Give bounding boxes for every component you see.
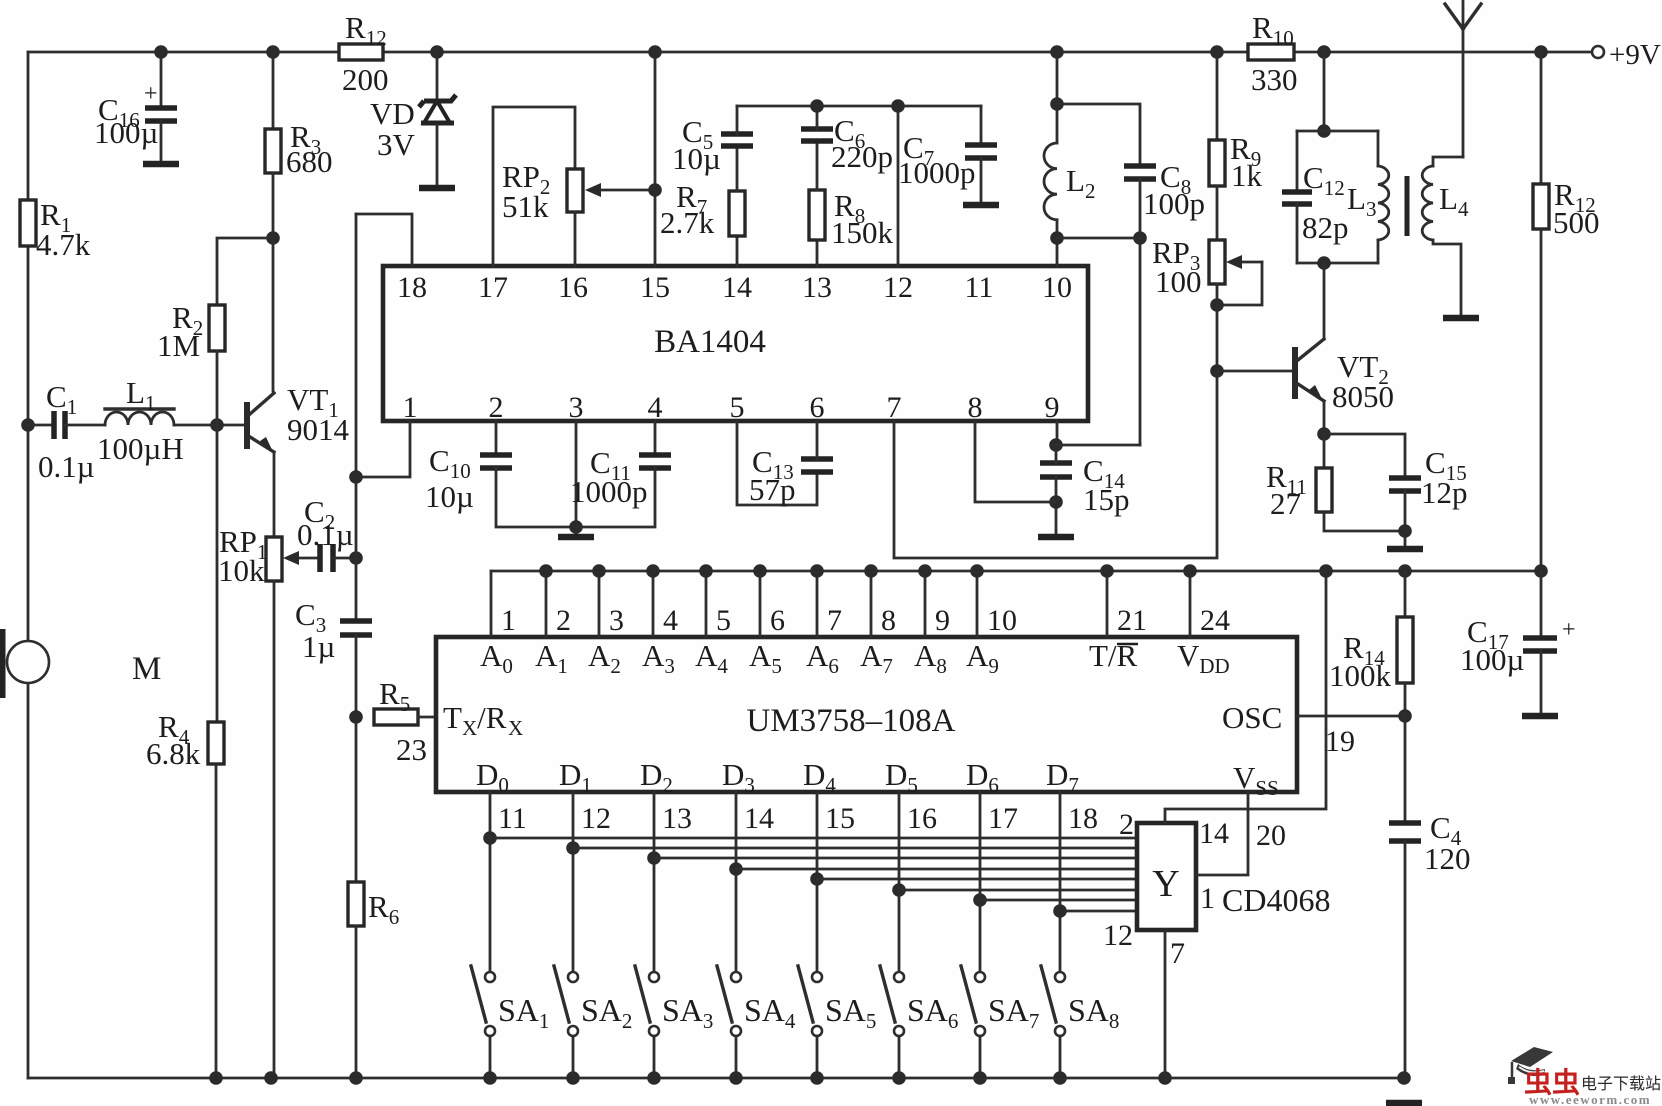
svg-text:16: 16 bbox=[907, 802, 937, 835]
junction rail-R3 bbox=[266, 45, 280, 59]
junction rail-pin15 bbox=[648, 45, 662, 59]
wire C15 bottom bbox=[1404, 491, 1407, 545]
potentiometer RP1 10k bbox=[266, 537, 282, 581]
switch SA1 bbox=[471, 966, 495, 1036]
zener diode VD 3V bbox=[419, 95, 456, 123]
junction left-C1 bbox=[21, 418, 35, 432]
ground under C17 bbox=[1522, 713, 1558, 720]
wire C5/C6/C7 top bbox=[737, 105, 981, 108]
wire D7 column bbox=[1059, 792, 1062, 972]
wire C14 top to C8 column bbox=[1056, 444, 1140, 447]
junction bus-pin10 bbox=[970, 564, 984, 578]
junction pin12-topwire bbox=[891, 99, 905, 113]
svg-text:10µ: 10µ bbox=[425, 479, 474, 514]
junction rail-R12b bbox=[1534, 45, 1548, 59]
junction SA1-bus bbox=[483, 1071, 497, 1085]
wire D4 column bbox=[816, 792, 819, 972]
RP1 wiper arrow bbox=[283, 551, 318, 565]
junction bus-pin3 bbox=[592, 564, 606, 578]
resistor R11 27 bbox=[1316, 468, 1332, 512]
svg-text:13: 13 bbox=[802, 271, 832, 304]
wire pin7 to VT2 base bbox=[894, 377, 1217, 558]
wire VT2 collector bbox=[1323, 263, 1326, 339]
wire UM3758 pin 5 stub bbox=[705, 571, 708, 637]
wire C4 top lead bbox=[1404, 716, 1407, 821]
svg-text:21: 21 bbox=[1117, 604, 1147, 637]
wire D2 to CD4068 bbox=[654, 857, 1137, 860]
wire SA4 to bus bbox=[735, 1036, 738, 1078]
svg-text:VD: VD bbox=[370, 96, 415, 131]
switch SA8 bbox=[1041, 966, 1065, 1036]
capacitor C8 100p bbox=[1124, 166, 1156, 179]
wire pin2 stub bbox=[495, 421, 498, 453]
svg-text:13: 13 bbox=[662, 802, 692, 835]
svg-text:1: 1 bbox=[1200, 882, 1215, 915]
svg-text:2: 2 bbox=[489, 391, 504, 424]
junction C10-C11-gnd bbox=[569, 520, 583, 534]
svg-text:220p: 220p bbox=[831, 139, 893, 174]
capacitor C6 220p bbox=[801, 129, 833, 141]
wire pin5 to C13 bbox=[737, 421, 817, 505]
svg-text:9014: 9014 bbox=[287, 412, 350, 447]
wire C2 to column bbox=[333, 557, 356, 560]
junction bus-pin6 bbox=[753, 564, 767, 578]
svg-text:0.1µ: 0.1µ bbox=[38, 449, 95, 484]
svg-text:5: 5 bbox=[716, 604, 731, 637]
junction RP3 feedback bbox=[1210, 298, 1224, 312]
junction D4 tap bbox=[810, 872, 824, 886]
capacitor C14 15p bbox=[1040, 463, 1072, 477]
switch SA3 bbox=[635, 966, 659, 1036]
junction SA8-bus bbox=[1053, 1071, 1067, 1085]
resistor R8 150k bbox=[809, 190, 825, 240]
svg-text:0.1µ: 0.1µ bbox=[297, 517, 354, 552]
svg-text:X: X bbox=[508, 716, 523, 740]
capacitor C5 10µ bbox=[721, 134, 753, 146]
junction bus-CD4068 supply bbox=[1319, 564, 1333, 578]
wire left border bbox=[27, 52, 30, 1078]
wire pin17 up bbox=[493, 107, 575, 266]
wire R9 top lead bbox=[1216, 52, 1219, 140]
op-amp U1 BA1404 bbox=[383, 266, 1088, 421]
svg-text:9: 9 bbox=[935, 604, 950, 637]
wire UM3758 pin 6 stub bbox=[759, 571, 762, 637]
junction bus-pin7 bbox=[810, 564, 824, 578]
svg-text:12: 12 bbox=[581, 802, 611, 835]
RP3 wiper arrow and feedback bbox=[1217, 255, 1262, 305]
resistor R2 1M bbox=[209, 305, 225, 351]
microphone M bbox=[3, 629, 50, 698]
ground under C14 bbox=[1038, 534, 1074, 541]
wire SA7 to bus bbox=[979, 1036, 982, 1078]
wire C17 bottom lead bbox=[1540, 651, 1543, 713]
svg-text:2: 2 bbox=[556, 604, 571, 637]
wire VD bottom lead bbox=[436, 125, 439, 185]
wire SA3 to bus bbox=[653, 1036, 656, 1078]
junction tank bottom bbox=[1317, 256, 1331, 270]
ground under pin3 bbox=[558, 534, 594, 541]
resistor R10 330 bbox=[1248, 44, 1294, 60]
wire C1 to L1 bbox=[65, 424, 105, 427]
switch SA5 bbox=[798, 966, 822, 1036]
wire C1 left lead bbox=[28, 424, 51, 427]
switch SA4 bbox=[717, 966, 741, 1036]
wire SA6 to bus bbox=[898, 1036, 901, 1078]
junction C14 bottom bbox=[1049, 495, 1063, 509]
junction R4-bus bbox=[209, 1071, 223, 1085]
wire R12b top lead bbox=[1540, 52, 1543, 184]
svg-text:4.7k: 4.7k bbox=[36, 227, 91, 262]
resistor R9 1k bbox=[1209, 140, 1225, 186]
svg-text:100µH: 100µH bbox=[97, 431, 184, 466]
svg-text:7: 7 bbox=[827, 604, 842, 637]
inductor L4 bbox=[1422, 166, 1433, 240]
junction rail-C16 bbox=[154, 45, 168, 59]
wire OSC pin19 bbox=[1297, 715, 1405, 718]
svg-text:UM3758–108A: UM3758–108A bbox=[746, 703, 955, 739]
wire VT2 emitter bbox=[1323, 401, 1326, 434]
svg-text:1µ: 1µ bbox=[302, 629, 335, 664]
wire pin18 column bbox=[355, 214, 358, 621]
capacitor C4 120 bbox=[1389, 823, 1421, 841]
svg-text:8: 8 bbox=[881, 604, 896, 637]
potentiometer RP2 51k bbox=[567, 169, 583, 212]
svg-text:电子下载站: 电子下载站 bbox=[1581, 1075, 1661, 1093]
wire RP1 bottom to bus bbox=[273, 581, 276, 1078]
wire UM3758 pin 9 stub bbox=[924, 571, 927, 637]
capacitor C7 1000p bbox=[965, 145, 997, 158]
resistor R14 100k bbox=[1397, 617, 1413, 683]
ground under L4 bbox=[1443, 315, 1479, 322]
wire R3 bottom lead bbox=[272, 173, 275, 238]
svg-text:10k: 10k bbox=[218, 553, 265, 588]
wire L2 bottom to C8 column bbox=[1057, 237, 1140, 240]
wire L2 top lead bbox=[1056, 52, 1059, 143]
wire R14 top lead bbox=[1404, 571, 1407, 617]
wire R8 to C6 bbox=[816, 141, 819, 190]
resistor R12 500 bbox=[1533, 184, 1549, 229]
wire L4 bottom lead bbox=[1433, 240, 1461, 315]
junction D2 tap bbox=[647, 851, 661, 865]
svg-text:23: 23 bbox=[396, 732, 427, 767]
wire pin15 to rail bbox=[654, 52, 657, 266]
svg-text:11: 11 bbox=[498, 802, 527, 835]
svg-text:100p: 100p bbox=[1143, 186, 1205, 221]
wire UM3758 pin 10 stub bbox=[976, 571, 979, 637]
svg-text:500: 500 bbox=[1553, 205, 1600, 240]
wire VD top lead bbox=[436, 52, 439, 97]
ground under C16 bbox=[143, 161, 179, 168]
wire tank top lead bbox=[1323, 52, 1326, 131]
capacitor C2 0.1µ bbox=[320, 544, 333, 572]
wire tank bottom side bbox=[1297, 262, 1378, 265]
switch SA7 bbox=[961, 966, 985, 1036]
junction L2 bottom bbox=[1050, 231, 1064, 245]
wire D1 to CD4068 bbox=[573, 847, 1137, 850]
svg-text:20: 20 bbox=[1256, 819, 1286, 852]
junction R6-bus bbox=[349, 1071, 363, 1085]
svg-text:680: 680 bbox=[286, 144, 333, 179]
svg-text:1: 1 bbox=[501, 604, 516, 637]
svg-text:19: 19 bbox=[1325, 725, 1355, 758]
svg-text:4: 4 bbox=[663, 604, 678, 637]
inductor L3 bbox=[1378, 166, 1389, 240]
resistor R6 bbox=[348, 882, 364, 926]
capacitor C13 57p bbox=[801, 459, 833, 472]
junction D0 tap bbox=[483, 831, 497, 845]
svg-text:51k: 51k bbox=[502, 189, 549, 224]
wire pin4 stub bbox=[654, 421, 657, 453]
wire C17 top lead bbox=[1540, 571, 1543, 636]
wire R7 to C5 bbox=[736, 148, 739, 191]
junction RP1-bus bbox=[264, 1071, 278, 1085]
wire R14 to OSC bbox=[1404, 683, 1407, 716]
svg-text:+9V: +9V bbox=[1609, 39, 1661, 71]
wire L2 bottom lead bbox=[1056, 220, 1059, 238]
wire C10 down bbox=[496, 468, 576, 527]
svg-text:10: 10 bbox=[1042, 271, 1072, 304]
svg-text:12: 12 bbox=[1103, 919, 1133, 952]
gate U3 CD4068 bbox=[1137, 823, 1196, 930]
wire L1 to base node bbox=[174, 424, 245, 427]
svg-text:+: + bbox=[144, 81, 158, 107]
switch SA6 bbox=[880, 966, 904, 1036]
wire C13 to pin6 bbox=[816, 421, 819, 459]
svg-text:3V: 3V bbox=[377, 127, 416, 162]
capacitor C3 1µ bbox=[340, 621, 372, 635]
wire SA8 to bus bbox=[1059, 1036, 1062, 1078]
svg-text:14: 14 bbox=[744, 802, 774, 835]
junction C8-L2 bottom bbox=[1133, 231, 1147, 245]
svg-text:200: 200 bbox=[342, 62, 389, 97]
wire RP2 to pin16 bbox=[574, 212, 577, 266]
RP2 wiper arrow bbox=[585, 183, 655, 197]
junction L2 top bbox=[1050, 97, 1064, 111]
wire C15 top bbox=[1324, 434, 1405, 476]
svg-text:3: 3 bbox=[569, 391, 584, 424]
junction rail-R9 bbox=[1210, 45, 1224, 59]
junction C15-R11 bbox=[1398, 524, 1412, 538]
svg-text:15: 15 bbox=[825, 802, 855, 835]
capacitor C16 100µ bbox=[145, 108, 177, 121]
svg-text:330: 330 bbox=[1251, 62, 1298, 97]
svg-text:11: 11 bbox=[965, 271, 994, 304]
svg-text:2.7k: 2.7k bbox=[660, 205, 715, 240]
wire D3 column bbox=[735, 792, 738, 972]
wire R3 top lead bbox=[272, 52, 275, 129]
svg-text:120: 120 bbox=[1424, 841, 1471, 876]
transistor VT2 8050 bbox=[1292, 339, 1324, 403]
wire D6 to CD4068 bbox=[980, 899, 1137, 902]
svg-text:7: 7 bbox=[887, 391, 902, 424]
svg-text:100µ: 100µ bbox=[94, 115, 158, 150]
transistor VT1 9014 bbox=[244, 393, 274, 454]
svg-text:+: + bbox=[1562, 617, 1576, 643]
wire C6 top lead bbox=[816, 106, 819, 129]
junction bus-pin4 bbox=[646, 564, 660, 578]
wire L2 top to C8 bbox=[1057, 104, 1140, 163]
svg-text:2: 2 bbox=[1119, 808, 1134, 841]
capacitor C1 0.1µ bbox=[54, 411, 65, 439]
svg-text:16: 16 bbox=[558, 271, 588, 304]
svg-text:1k: 1k bbox=[1231, 158, 1263, 193]
wire C4 bottom lead bbox=[1404, 841, 1407, 1078]
junction CD4068 pin7-bus bbox=[1158, 1071, 1172, 1085]
wire C16 top lead bbox=[160, 52, 163, 105]
capacitor C17 100µ bbox=[1523, 638, 1557, 651]
junction bus-C17 bbox=[1534, 564, 1548, 578]
wire UM3758 pin 3 stub bbox=[598, 571, 601, 637]
junction SA4-bus bbox=[729, 1071, 743, 1085]
wire D4 to CD4068 bbox=[817, 878, 1137, 881]
wire tank left upper bbox=[1296, 131, 1299, 190]
wire VT1 collector bbox=[272, 238, 275, 391]
wire pin1 to column bbox=[356, 421, 410, 477]
watermark logo bbox=[1508, 1047, 1553, 1084]
svg-text:27: 27 bbox=[1270, 486, 1301, 521]
svg-text:4: 4 bbox=[648, 391, 663, 424]
junction pin1-column bbox=[349, 470, 363, 484]
svg-text:14: 14 bbox=[1199, 817, 1229, 850]
junction D6 tap bbox=[973, 893, 987, 907]
svg-text:1M: 1M bbox=[157, 328, 200, 363]
capacitor C10 10µ bbox=[480, 455, 512, 468]
wire D0 to CD4068 bbox=[490, 837, 1137, 840]
wire UM3758 pin 21 stub bbox=[1106, 571, 1109, 637]
inductor L2 bbox=[1044, 143, 1057, 220]
svg-text:17: 17 bbox=[478, 271, 508, 304]
wire VDD bus bbox=[491, 570, 1541, 573]
wire C3 to R5 node bbox=[355, 635, 358, 882]
svg-text:100µ: 100µ bbox=[1460, 642, 1524, 677]
wire C7 bottom lead bbox=[980, 158, 983, 202]
wire +9V top rail bbox=[28, 51, 1592, 54]
IC U2 UM3758-108A bbox=[436, 637, 1297, 792]
svg-text:18: 18 bbox=[397, 271, 427, 304]
junction SA7-bus bbox=[973, 1071, 987, 1085]
wire CD4068 pin14 to bus bbox=[1165, 571, 1326, 823]
junction OSC node bbox=[1398, 709, 1412, 723]
wire pin8 to C14 bottom bbox=[975, 421, 1056, 502]
potentiometer RP3 100 bbox=[1209, 240, 1225, 284]
wire pin3 stub bbox=[575, 421, 578, 533]
wire D2 column bbox=[653, 792, 656, 972]
wire R9 to RP3 bbox=[1216, 186, 1219, 240]
wire tank left lower bbox=[1296, 204, 1299, 263]
svg-text:10µ: 10µ bbox=[672, 141, 721, 176]
wire pin12 to topwire bbox=[897, 106, 900, 266]
junction D1 tap bbox=[566, 841, 580, 855]
junction bus-pin9 bbox=[918, 564, 932, 578]
svg-text:Y: Y bbox=[1152, 863, 1179, 905]
svg-text:17: 17 bbox=[988, 802, 1018, 835]
wire C14 leads bbox=[1055, 445, 1058, 533]
capacitor C11 1000p bbox=[639, 455, 671, 468]
svg-text:7: 7 bbox=[1170, 937, 1185, 970]
wire pin18 loop bbox=[356, 214, 412, 266]
wire D6 column bbox=[979, 792, 982, 972]
wire R11 top lead bbox=[1323, 434, 1326, 468]
junction R5 node bbox=[349, 710, 363, 724]
wire VT1 emitter to RP1 bbox=[273, 452, 276, 537]
wire C7 top lead bbox=[980, 106, 983, 145]
junction base node bbox=[210, 418, 224, 432]
ground under VD bbox=[419, 185, 455, 192]
wire D5 to CD4068 bbox=[899, 889, 1137, 892]
svg-text:1000p: 1000p bbox=[898, 155, 976, 190]
wire UM3758 pin 1 stub bbox=[490, 571, 493, 637]
junction SA2-bus bbox=[566, 1071, 580, 1085]
svg-text:1000p: 1000p bbox=[570, 474, 648, 509]
wire UM3758 pin 4 stub bbox=[652, 571, 655, 637]
svg-text:82p: 82p bbox=[1302, 210, 1349, 245]
wire D1 column bbox=[572, 792, 575, 972]
svg-text:12p: 12p bbox=[1421, 475, 1468, 510]
svg-text:6: 6 bbox=[770, 604, 785, 637]
ground under C7 bbox=[963, 202, 999, 209]
svg-text:18: 18 bbox=[1068, 802, 1098, 835]
svg-text:57p: 57p bbox=[749, 472, 796, 507]
resistor R1 4.7k bbox=[20, 200, 36, 246]
capacitor C12 82p bbox=[1282, 192, 1312, 204]
svg-text:M: M bbox=[132, 651, 161, 687]
junction C6-topwire bbox=[810, 99, 824, 113]
switch SA2 bbox=[554, 966, 578, 1036]
junction SA3-bus bbox=[647, 1071, 661, 1085]
resistor R5 23 bbox=[374, 709, 418, 725]
wire to VT2 base bbox=[1217, 370, 1293, 373]
junction tank top bbox=[1317, 124, 1331, 138]
svg-text:3: 3 bbox=[609, 604, 624, 637]
resistor R4 6.8k bbox=[208, 722, 224, 764]
wire CD4068 pin7 to bus bbox=[1164, 930, 1167, 1078]
wire tank right lower bbox=[1377, 240, 1380, 263]
wire L4 top lead bbox=[1433, 157, 1463, 166]
junction bus-pin21 bbox=[1100, 564, 1114, 578]
wire pin9 stub bbox=[1056, 421, 1059, 445]
ground at bus end bbox=[1386, 1100, 1422, 1106]
wire SA2 to bus bbox=[572, 1036, 575, 1078]
junction bus-pin8 bbox=[864, 564, 878, 578]
wire tank right upper bbox=[1377, 131, 1380, 166]
svg-text:10: 10 bbox=[987, 604, 1017, 637]
junction bus-pin2 bbox=[539, 564, 553, 578]
wire RP3 down bbox=[1216, 284, 1219, 371]
wire R2 to base node bbox=[216, 351, 219, 425]
wire tank top side bbox=[1297, 130, 1378, 133]
junction rail-tank bbox=[1317, 45, 1331, 59]
junction R3-R2-collector bbox=[266, 231, 280, 245]
wire bottom ground bus bbox=[28, 1077, 1404, 1080]
svg-text:100k: 100k bbox=[1329, 658, 1392, 693]
svg-text:15: 15 bbox=[640, 271, 670, 304]
wire R6 to bus bbox=[355, 926, 358, 1078]
junction D7 tap bbox=[1053, 904, 1067, 918]
wire SA5 to bus bbox=[816, 1036, 819, 1078]
svg-text:24: 24 bbox=[1200, 604, 1230, 637]
svg-text:BA1404: BA1404 bbox=[654, 324, 766, 360]
wire SA1 to bus bbox=[489, 1036, 492, 1078]
wire R5 to chip bbox=[418, 716, 436, 719]
junction bus-R14 bbox=[1398, 564, 1412, 578]
junction D5 tap bbox=[892, 883, 906, 897]
wire pin14 stub bbox=[736, 236, 739, 266]
svg-text:www.eeworm.com: www.eeworm.com bbox=[1529, 1092, 1651, 1106]
wire D0 column bbox=[489, 792, 492, 972]
wire C5 top lead bbox=[736, 106, 739, 134]
wire R11 bottom bbox=[1324, 512, 1405, 531]
junction pin15-wiper bbox=[648, 183, 662, 197]
